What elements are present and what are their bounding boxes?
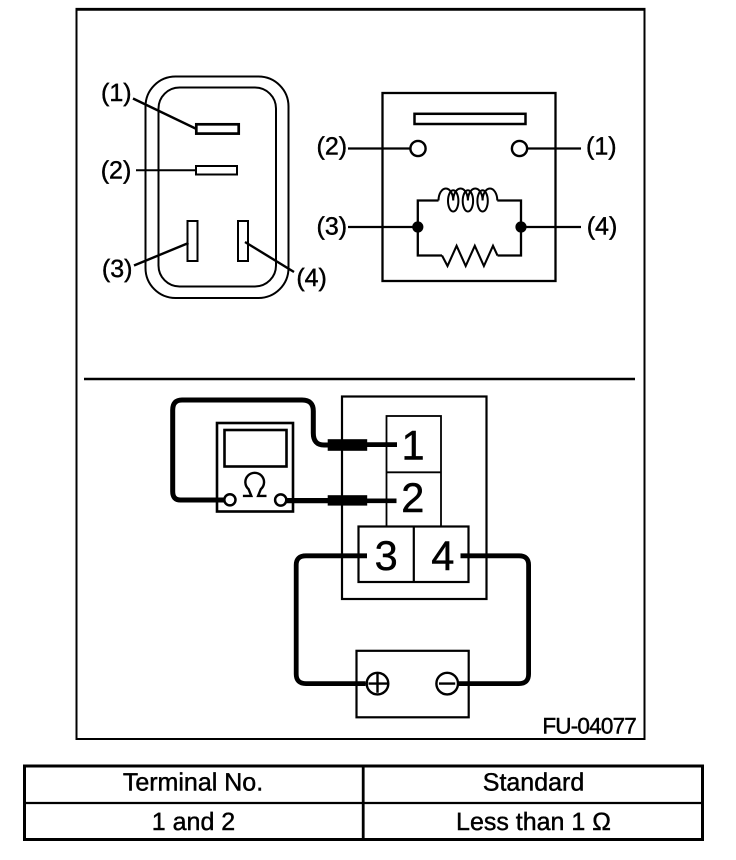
- connector body outline (outer): [146, 77, 289, 299]
- leader line to node 4: [522, 226, 581, 228]
- svg-text:Standard: Standard: [483, 769, 584, 797]
- figure border: [76, 9, 646, 739]
- leader line to slot 4: [245, 242, 294, 272]
- leader line to pin 2: [348, 147, 410, 149]
- ohmmeter body: [217, 423, 293, 512]
- relay internal circuit box: [383, 93, 556, 281]
- wire terminal 3 to battery positive: [296, 556, 367, 684]
- svg-text:FU-04077: FU-04077: [542, 714, 636, 739]
- table frame: [23, 765, 704, 842]
- svg-text:(2): (2): [317, 133, 348, 161]
- svg-text:(4): (4): [296, 264, 327, 292]
- terminal slot 3: [188, 221, 198, 261]
- coil (inductor): [439, 189, 498, 212]
- section divider line: [84, 378, 635, 381]
- cells 3 and 4 box: [359, 527, 469, 583]
- leader line to slot 2: [136, 169, 196, 171]
- svg-text:1: 1: [401, 422, 424, 469]
- battery negative terminal: [436, 673, 458, 695]
- probe tip 1: [328, 439, 368, 451]
- svg-text:1 and 2: 1 and 2: [152, 808, 235, 836]
- node 4 (filled): [515, 221, 526, 232]
- ohmmeter display: [225, 430, 287, 467]
- terminal pin 2 circle: [410, 141, 425, 156]
- leader line to pin 1: [528, 147, 582, 149]
- terminal slot 2: [196, 166, 237, 175]
- svg-text:Terminal No.: Terminal No.: [123, 769, 263, 797]
- test connector outer box: [342, 397, 487, 600]
- ohmmeter right jack: [275, 494, 286, 505]
- node 3 (filled): [412, 221, 423, 232]
- ohmmeter left jack: [224, 494, 235, 505]
- svg-text:(1): (1): [586, 133, 617, 161]
- wire terminal 4 to battery negative: [459, 556, 529, 684]
- svg-text:(4): (4): [587, 213, 618, 241]
- svg-text:(1): (1): [101, 79, 132, 107]
- svg-text:(3): (3): [317, 213, 348, 241]
- svg-text:Less than 1 Ω: Less than 1 Ω: [456, 808, 611, 836]
- battery positive terminal: [367, 673, 389, 695]
- test lead cable from right jack to probe 2: [286, 498, 329, 503]
- probe tip 2: [328, 495, 368, 505]
- test lead cable from left jack to probe 1: [173, 400, 329, 500]
- parallel loop wires: [418, 201, 521, 256]
- svg-text:3: 3: [375, 532, 398, 579]
- probe 1 wire into terminal 1: [366, 442, 397, 447]
- leader line to slot 1: [133, 99, 197, 130]
- connector body outline (inner): [159, 88, 277, 287]
- svg-text:(2): (2): [101, 157, 132, 185]
- terminal slot 1: [196, 124, 238, 133]
- leader line to node 3: [348, 226, 417, 228]
- svg-text:(3): (3): [102, 255, 133, 283]
- leader line to slot 3: [134, 243, 189, 266]
- svg-text:2: 2: [401, 474, 424, 521]
- contact bar: [415, 114, 526, 124]
- resistor zigzag: [442, 246, 498, 266]
- ohm symbol: [243, 473, 267, 496]
- cells 1 and 2 box: [387, 416, 442, 527]
- svg-text:4: 4: [431, 532, 454, 579]
- terminal slot 4: [238, 221, 248, 261]
- probe 2 wire into terminal 2: [366, 498, 397, 503]
- battery box: [357, 651, 469, 718]
- terminal pin 1 circle: [512, 141, 527, 156]
